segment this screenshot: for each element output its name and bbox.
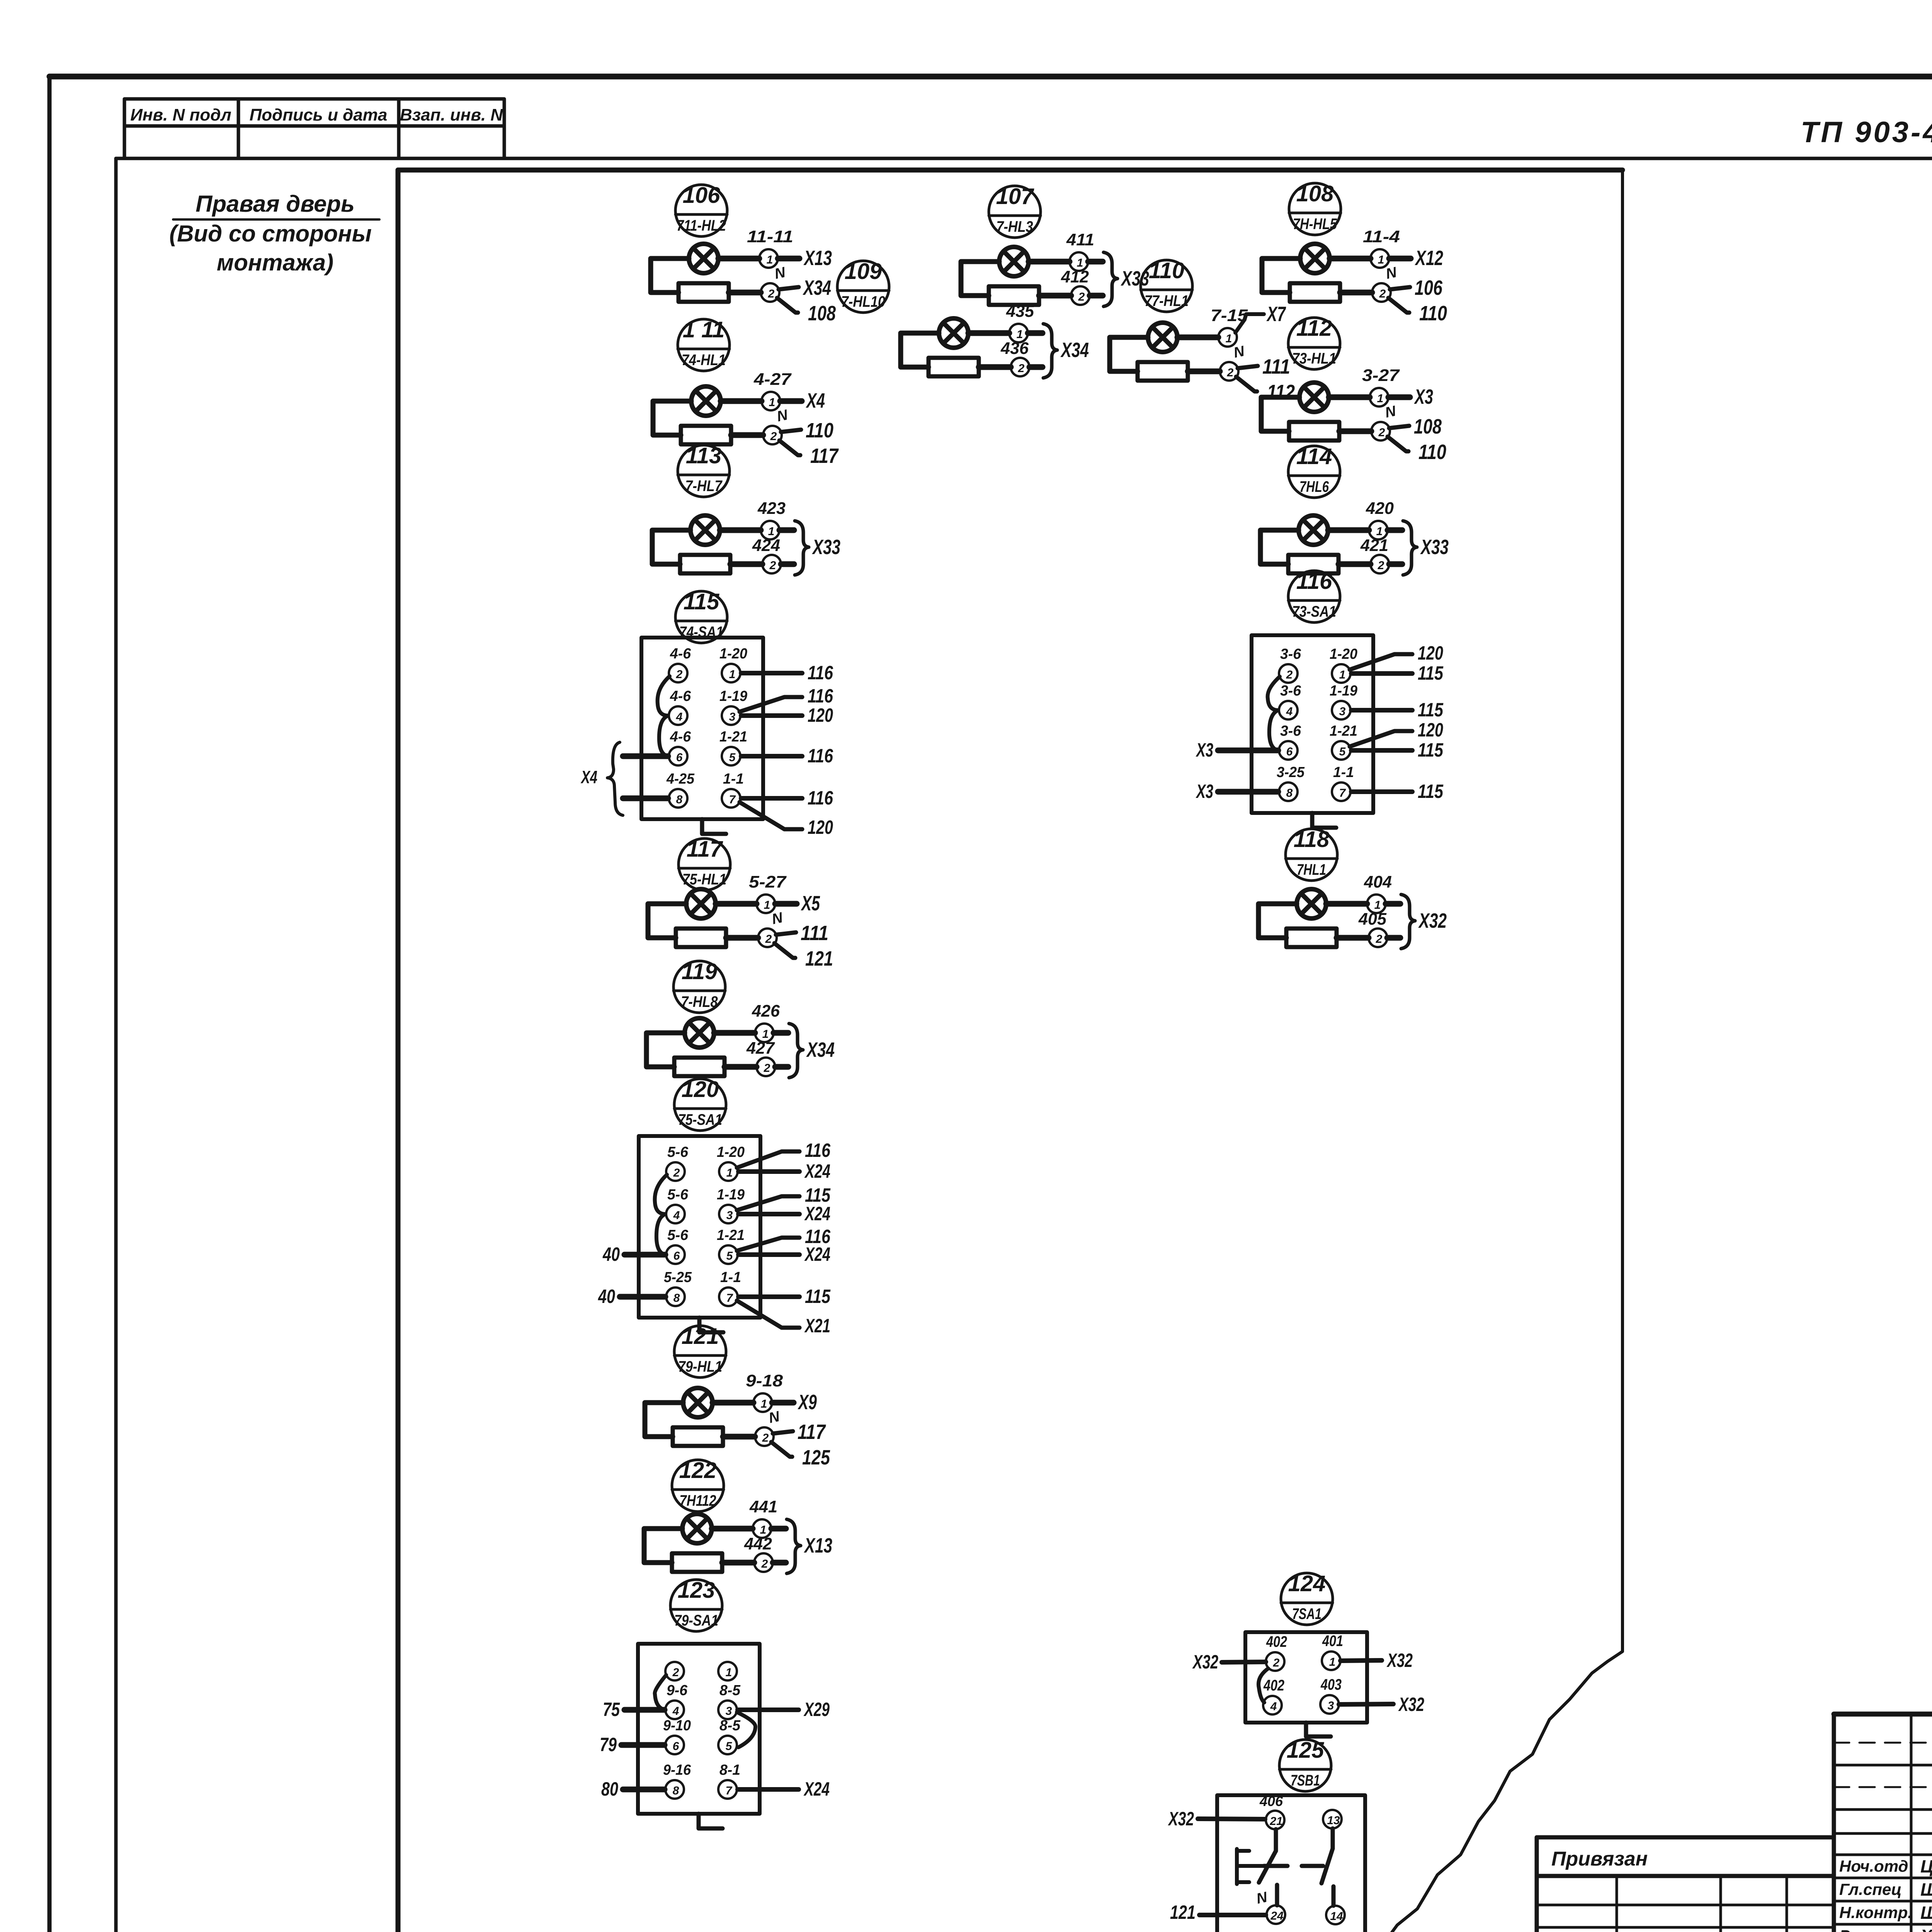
lamp HL7(113): terminal 1 — [761, 521, 779, 539]
switch SA1(123): label 8-5 — [719, 1682, 741, 1699]
svg-text:80: 80 — [601, 1778, 618, 1800]
svg-text:X32: X32 — [1418, 909, 1447, 932]
switch SA1(120): body — [639, 1136, 760, 1318]
lamp HL3(107): terminal 2 — [1071, 286, 1090, 305]
lamp H112(122): wire label 441 — [749, 1497, 777, 1516]
lamp H112(122): wire resistor to terminal 2 — [722, 1560, 754, 1566]
svg-text:73-SA1: 73-SA1 — [1292, 603, 1336, 620]
lamp HL6(114): wire resistor to terminal 2 — [1338, 561, 1371, 567]
svg-text:110: 110 — [1149, 258, 1184, 283]
switch SA1(123): label 9-16 — [663, 1762, 691, 1778]
svg-text:X4: X4 — [806, 389, 825, 412]
svg-text:2: 2 — [764, 1062, 770, 1075]
svg-text:1: 1 — [769, 396, 776, 409]
designator circle 119 (119/7-HL8) — [673, 959, 725, 1013]
switch SA1(115): bracket X4 wires to terminals 6,8 — [580, 742, 668, 815]
switch SA1(123): wire 75 to terminal 4 — [603, 1699, 665, 1720]
designator circle 107 (107/7-HL3) — [989, 184, 1041, 238]
svg-text:1: 1 — [1226, 332, 1232, 345]
svg-text:X24: X24 — [804, 1203, 830, 1225]
svg-text:412: 412 — [1061, 267, 1089, 286]
switch SA1(115): label 1-21 — [719, 729, 747, 745]
pushbutton 125: terminal 24 — [1267, 1905, 1285, 1924]
lamp HL1(121): wire to X9 — [772, 1391, 817, 1414]
lamp HL7(113): wire label 424 — [752, 536, 780, 555]
svg-text:5: 5 — [1339, 745, 1346, 758]
svg-text:115: 115 — [1418, 699, 1444, 721]
switch 124: mounting foot — [1306, 1723, 1331, 1736]
switch SA1(120): terminal 6 — [666, 1245, 685, 1264]
lamp HL2(106): wire lamp to terminal 1 — [718, 256, 759, 262]
lamp HL10(109): lamp symbol — [939, 318, 968, 348]
svg-text:74-HL1: 74-HL1 — [682, 352, 726, 369]
switch 124: label 402 — [1263, 1677, 1284, 1694]
lamp HL2(106): wire label 11-11 — [747, 227, 793, 246]
svg-text:116: 116 — [808, 745, 833, 767]
switch SA1(116): label 1-1 — [1333, 764, 1354, 781]
lamp H112(122): wire left rail — [644, 1529, 682, 1563]
switch SA1(120): label 5-6 — [667, 1144, 689, 1160]
svg-text:401: 401 — [1322, 1633, 1343, 1650]
lamp HL5(108): wire to 110 — [1388, 298, 1447, 325]
switch SA1(123): terminal 6 — [665, 1736, 684, 1754]
switch 124: terminal 4 — [1263, 1696, 1282, 1714]
svg-text:1-20: 1-20 — [719, 646, 747, 662]
svg-text:125: 125 — [1287, 1738, 1325, 1763]
svg-text:4-6: 4-6 — [670, 646, 691, 662]
lamp H112(122): terminal 2 — [754, 1553, 773, 1572]
lamp H112(122): wire lamp to terminal 1 — [712, 1526, 753, 1532]
switch SA1(115): terminal 3 — [722, 706, 740, 725]
lamp HL1(118): wire left rail — [1259, 904, 1297, 938]
svg-text:442: 442 — [744, 1534, 772, 1553]
lamp HL6(114): wire left rail — [1260, 530, 1299, 564]
svg-text:X13: X13 — [804, 1534, 832, 1557]
svg-text:7: 7 — [729, 793, 736, 806]
switch SA1(116): wire X3 to terminal 6 — [1196, 739, 1278, 761]
switch SA1(120): wire to 115 — [738, 1286, 831, 1307]
switch SA1(115): jumper wire 2-4-6 — [658, 676, 670, 756]
switch SA1(116): wire to 115 — [1351, 781, 1444, 802]
svg-text:121: 121 — [805, 947, 833, 970]
svg-text:4: 4 — [673, 1209, 680, 1222]
lamp HL10(109): wire label 436 — [1000, 339, 1029, 358]
switch SA1(120): label 5-6 — [667, 1227, 689, 1243]
svg-text:711-HL2: 711-HL2 — [677, 217, 726, 234]
switch SA1(116): label 3-6 — [1280, 723, 1301, 739]
lamp HL2(106): wire resistor to terminal 2 — [729, 290, 761, 296]
svg-text:77-HL1: 77-HL1 — [1145, 293, 1189, 310]
svg-text:7H-HL5: 7H-HL5 — [1293, 216, 1337, 233]
lamp HL7(113): wire resistor to terminal 2 — [730, 561, 762, 567]
designator circle 112 (112/73-HL1) — [1288, 316, 1340, 369]
switch SA1(115): label 4-6 — [670, 688, 691, 704]
lamp HL1(118): wire terminal 1 to bracket — [1386, 901, 1400, 907]
switch SA1(120): terminal 1 — [719, 1162, 738, 1181]
svg-text:5-25: 5-25 — [664, 1269, 692, 1286]
designator circle 108 (108/7H-HL5) — [1289, 181, 1341, 235]
svg-text:2: 2 — [1376, 933, 1383, 946]
lamp HL1(112): terminal 1 — [1370, 388, 1388, 406]
svg-text:112: 112 — [1267, 381, 1295, 404]
switch SA1(116): label 3-6 — [1280, 646, 1301, 662]
svg-text:120: 120 — [1418, 642, 1443, 664]
title block: row Ноч.отд Цапко — [1839, 1856, 1932, 1876]
switch SA1(115): wire to 116 — [741, 787, 833, 809]
lamp HL7(113): wire lamp to terminal 1 — [720, 527, 761, 533]
switch SA1(116): wire X3 to terminal 8 — [1196, 781, 1278, 802]
svg-text:11-11: 11-11 — [747, 227, 793, 246]
svg-text:2: 2 — [1286, 668, 1293, 681]
svg-text:9-10: 9-10 — [663, 1718, 691, 1734]
svg-text:8: 8 — [673, 1292, 680, 1304]
svg-text:1-20: 1-20 — [1330, 646, 1357, 662]
svg-text:3: 3 — [1339, 705, 1346, 718]
lamp HL1(118): terminal 2 — [1369, 929, 1387, 947]
svg-text:111: 111 — [1262, 355, 1290, 378]
lamp HL1(110): wire label 7-15 — [1211, 306, 1248, 325]
svg-text:Рук.гр.: Рук.гр. — [1839, 1927, 1895, 1932]
svg-text:7: 7 — [1339, 787, 1346, 799]
svg-text:2: 2 — [673, 1167, 680, 1179]
lamp HL7(113): wire left rail — [652, 530, 690, 564]
designator circle 124 (124/7SA1) — [1281, 1571, 1333, 1625]
svg-text:X33: X33 — [1420, 536, 1449, 559]
switch SA1(123): label 9-10 — [663, 1718, 691, 1734]
svg-text:1-21: 1-21 — [1330, 723, 1357, 739]
lamp HL1(121): resistor — [673, 1427, 723, 1446]
pushbutton 125: wire 121 to terminal 24 — [1170, 1901, 1266, 1923]
svg-text:6: 6 — [673, 1250, 680, 1262]
lamp HL1(110): wire resistor to terminal 2 — [1188, 369, 1220, 374]
designator circle 120 (120/75-SA1) — [674, 1077, 726, 1131]
switch SA1(120): wire 40 to terminal 6 — [602, 1243, 665, 1265]
switch SA1(123): wire 79 to terminal 6 — [600, 1734, 665, 1755]
switch 124: terminal 2 — [1266, 1652, 1284, 1671]
lamp HL1(117): wire left rail — [648, 904, 686, 938]
lamp HL7(113): wire terminal 2 to bracket — [781, 561, 794, 567]
lamp H112(122): lamp symbol — [682, 1514, 712, 1543]
lamp HL1(117): terminal 2 — [758, 929, 777, 947]
svg-text:108: 108 — [808, 302, 836, 325]
switch SA1(120): terminal 5 — [719, 1245, 738, 1264]
title block: row Н.контр. Шейнин — [1839, 1903, 1932, 1923]
switch 124: wire terminal 3 to X32 — [1339, 1694, 1424, 1715]
lamp HL2(106): node N label — [773, 264, 787, 282]
svg-text:116: 116 — [805, 1139, 831, 1161]
switch SA1(120): wire to 116 — [737, 1226, 831, 1251]
switch SA1(116): terminal 2 — [1279, 664, 1298, 683]
svg-text:1: 1 — [1377, 392, 1384, 405]
lamp HL1(118): bracket to X32 — [1401, 895, 1447, 949]
lamp HL1(111): wire to X4 — [780, 389, 825, 412]
svg-text:X3: X3 — [1196, 739, 1213, 761]
switch SA1(116): terminal 8 — [1279, 782, 1298, 801]
switch SA1(115): label 4-6 — [670, 646, 691, 662]
lamp HL1(118): resistor — [1286, 929, 1337, 947]
svg-text:1: 1 — [729, 668, 736, 681]
lamp HL5(108): wire label 11-4 — [1363, 227, 1400, 246]
svg-text:(Вид со стороны: (Вид со стороны — [169, 221, 372, 247]
table: Инв.N подл / Подпись и дата / Взам.инв.N — [124, 99, 504, 158]
lamp H112(122): wire terminal 1 to bracket — [771, 1526, 786, 1532]
svg-text:24: 24 — [1270, 1910, 1284, 1922]
svg-text:2: 2 — [762, 1432, 769, 1444]
pushbutton 125: label 406 — [1259, 1793, 1283, 1809]
lamp HL1(118): wire terminal 2 to bracket — [1387, 935, 1400, 941]
lamp HL1(117): wire resistor to terminal 2 — [726, 935, 758, 941]
lamp HL3(107): wire left rail — [961, 262, 999, 296]
lamp HL6(114): bracket to X33 — [1403, 521, 1449, 575]
svg-text:2: 2 — [672, 1666, 679, 1679]
svg-text:1 11: 1 11 — [683, 317, 725, 342]
svg-text:114: 114 — [1296, 444, 1332, 469]
svg-text:40: 40 — [602, 1243, 620, 1265]
lamp HL1(110): node N label — [1232, 343, 1247, 361]
switch SA1(116): mounting foot — [1312, 813, 1336, 828]
title block: row Рук.гр. Хаймовский — [1839, 1926, 1932, 1932]
switch SA1(123): jumper wire 2-4 — [655, 1675, 666, 1710]
svg-text:8: 8 — [676, 793, 683, 806]
switch SA1(123): terminal 4 — [665, 1701, 684, 1719]
svg-text:8: 8 — [1286, 787, 1293, 799]
svg-text:13: 13 — [1327, 1814, 1340, 1827]
lamp HL6(114): wire label 420 — [1366, 499, 1394, 518]
svg-text:423: 423 — [757, 499, 786, 518]
designator circle 109 (109/7-HL10) — [837, 259, 889, 313]
svg-text:124: 124 — [1288, 1571, 1326, 1596]
svg-text:120: 120 — [808, 704, 833, 726]
svg-text:1: 1 — [726, 1167, 733, 1179]
lamp HL5(108): wire to X12 — [1389, 247, 1443, 270]
svg-text:X7: X7 — [1266, 303, 1286, 326]
svg-text:120: 120 — [682, 1077, 719, 1102]
svg-text:4: 4 — [1270, 1700, 1277, 1713]
svg-text:7-HL3: 7-HL3 — [997, 218, 1033, 235]
lamp HL2(106): terminal 1 — [759, 249, 778, 268]
text Правая дверь (Вид со стороны монтажа) — [169, 191, 379, 276]
switch 124: terminal 1 — [1322, 1651, 1340, 1670]
svg-text:411: 411 — [1066, 230, 1094, 249]
svg-text:3-6: 3-6 — [1280, 723, 1301, 739]
svg-text:405: 405 — [1358, 910, 1386, 929]
lamp HL8(119): wire lamp to terminal 1 — [714, 1030, 755, 1036]
svg-text:110: 110 — [806, 419, 833, 442]
lamp HL1(111): wire left rail — [653, 401, 691, 435]
svg-text:110: 110 — [1419, 302, 1447, 325]
svg-text:2: 2 — [1378, 426, 1385, 439]
svg-text:1-1: 1-1 — [723, 771, 744, 787]
lamp HL1(117): wire to X5 — [775, 892, 820, 915]
svg-text:117: 117 — [810, 444, 839, 468]
lamp HL6(114): wire terminal 1 to bracket — [1388, 527, 1402, 533]
svg-text:X9: X9 — [798, 1391, 817, 1414]
svg-text:X24: X24 — [804, 1243, 830, 1265]
designator circle 121 (121/79-HL1) — [674, 1324, 726, 1378]
lamp HL1(118): wire lamp to terminal 1 — [1326, 901, 1367, 907]
switch SA1(123): mounting foot — [699, 1814, 723, 1828]
svg-text:3-27: 3-27 — [1362, 366, 1400, 385]
svg-text:1: 1 — [761, 1398, 767, 1410]
svg-text:115: 115 — [1418, 781, 1444, 802]
lamp HL5(108): resistor — [1290, 283, 1340, 302]
switch SA1(116): label 1-20 — [1330, 646, 1357, 662]
lamp HL6(114): terminal 1 — [1369, 521, 1388, 539]
svg-text:402: 402 — [1263, 1677, 1284, 1694]
lamp HL6(114): resistor — [1288, 555, 1338, 573]
switch SA1(123): label 9-6 — [667, 1682, 688, 1699]
lamp HL1(117): wire to 121 — [774, 943, 833, 970]
title block: row Гл.спец Шубов — [1839, 1879, 1932, 1900]
switch SA1(116): wire to 120 — [1350, 719, 1443, 747]
designator circle 111 (1 11/74-HL1) — [678, 317, 730, 371]
lamp HL1(112): wire left rail — [1261, 397, 1299, 431]
lamp HL5(108): wire to 106 — [1390, 276, 1443, 299]
svg-text:4-6: 4-6 — [670, 729, 691, 745]
svg-text:9-18: 9-18 — [746, 1371, 783, 1390]
switch SA1(120): wire to X24 — [738, 1160, 830, 1182]
svg-text:X32: X32 — [1386, 1650, 1413, 1671]
pushbutton 125: label N — [1255, 1889, 1269, 1907]
lamp HL1(110): resistor — [1138, 362, 1188, 381]
switch SA1(116): body — [1252, 635, 1373, 813]
lamp HL5(108): terminal 2 — [1372, 283, 1391, 302]
svg-text:73-HL1: 73-HL1 — [1292, 350, 1336, 367]
lamp HL10(109): wire label 435 — [1006, 302, 1034, 321]
svg-text:X5: X5 — [801, 892, 820, 915]
svg-text:X32: X32 — [1398, 1694, 1424, 1715]
lamp HL8(119): bracket to X34 — [789, 1024, 835, 1078]
switch SA1(115): wire to 116 — [740, 685, 833, 712]
svg-text:119: 119 — [682, 959, 717, 984]
switch SA1(116): terminal 6 — [1279, 741, 1298, 760]
svg-text:40: 40 — [598, 1286, 615, 1307]
svg-text:122: 122 — [679, 1458, 717, 1483]
svg-text:X24: X24 — [804, 1160, 830, 1182]
switch SA1(120): terminal 4 — [666, 1205, 685, 1223]
svg-text:3: 3 — [726, 1209, 733, 1222]
svg-text:420: 420 — [1366, 499, 1394, 518]
switch SA1(123): terminal 7 — [718, 1780, 737, 1799]
switch SA1(120): wire to 116 — [737, 1139, 831, 1168]
switch 124: wire X32 to terminal 2 — [1192, 1651, 1266, 1673]
svg-text:117: 117 — [687, 837, 723, 862]
svg-text:X3: X3 — [1414, 385, 1433, 408]
lamp HL1(110): wire to 111 — [1238, 355, 1290, 378]
svg-text:116: 116 — [808, 685, 833, 707]
switch SA1(116): wire to 115 — [1351, 739, 1444, 761]
svg-text:1-1: 1-1 — [720, 1269, 741, 1286]
svg-text:75: 75 — [603, 1699, 620, 1720]
lamp HL7(113): wire label 423 — [757, 499, 786, 518]
lamp HL1(111): wire label 4-27 — [753, 370, 792, 389]
svg-text:5: 5 — [726, 1250, 733, 1262]
switch SA1(115): wire to 120 — [740, 802, 833, 838]
lamp HL1(117): resistor — [676, 929, 726, 947]
switch SA1(120): mounting foot — [699, 1318, 723, 1332]
svg-text:79-HL1: 79-HL1 — [678, 1358, 722, 1375]
lamp HL7(113): wire terminal 1 to bracket — [779, 527, 794, 533]
lamp HL5(108): lamp symbol — [1300, 244, 1330, 273]
svg-text:Подпись и дата: Подпись и дата — [250, 105, 388, 124]
switch SA1(115): terminal 4 — [669, 706, 687, 725]
lamp HL10(109): wire lamp to terminal 1 — [968, 330, 1009, 336]
svg-text:8: 8 — [673, 1784, 679, 1797]
lamp HL1(111): terminal 1 — [762, 392, 780, 410]
svg-text:21: 21 — [1269, 1815, 1282, 1828]
switch SA1(123): terminal 3 — [718, 1701, 737, 1719]
pushbutton 125: terminal 13 — [1323, 1810, 1342, 1828]
switch 124: jumper wire 2-4 — [1259, 1668, 1268, 1702]
lamp HL1(112): wire lamp to terminal 1 — [1329, 395, 1370, 400]
svg-text:2: 2 — [1379, 287, 1386, 300]
lamp HL6(114): lamp symbol — [1299, 515, 1328, 545]
svg-text:427: 427 — [746, 1039, 775, 1058]
svg-text:3-6: 3-6 — [1280, 683, 1301, 699]
switch SA1(120): terminal 2 — [666, 1162, 685, 1181]
lamp HL1(117): wire lamp to terminal 1 — [716, 901, 757, 907]
switch SA1(115): label 1-1 — [723, 771, 744, 787]
lamp HL1(121): wire resistor to terminal 2 — [723, 1434, 755, 1440]
designator circle 115 (115/74-SA1) — [675, 589, 727, 643]
lamp HL1(121): wire to 125 — [771, 1442, 830, 1469]
switch SA1(123): wire 80 to terminal 8 — [601, 1778, 665, 1800]
lamp HL2(106): wire to X13 — [778, 247, 832, 270]
svg-text:2: 2 — [1018, 362, 1025, 375]
svg-text:118: 118 — [1294, 827, 1330, 852]
pushbutton 125: terminal 14 — [1326, 1906, 1345, 1924]
lamp HL1(110): terminal 2 — [1220, 362, 1238, 381]
switch SA1(115): label 4-6 — [670, 729, 691, 745]
lamp HL1(118): wire resistor to terminal 2 — [1337, 935, 1369, 941]
svg-text:X34: X34 — [806, 1038, 835, 1061]
svg-text:108: 108 — [1414, 415, 1442, 438]
lamp HL1(121): wire to 117 — [773, 1420, 826, 1444]
lamp HL7(113): resistor — [680, 555, 730, 573]
lamp HL8(119): wire left rail — [646, 1033, 685, 1067]
switch SA1(115): terminal 6 — [669, 747, 687, 765]
lamp HL1(111): resistor — [681, 426, 731, 444]
lamp HL7(113): lamp symbol — [690, 515, 720, 545]
svg-text:5: 5 — [726, 1740, 733, 1753]
lamp HL1(118): terminal 1 — [1367, 895, 1386, 913]
switch SA1(115): terminal 2 — [669, 664, 687, 682]
pushbutton 125: NO contact — [1302, 1828, 1333, 1906]
title block: left lower table — [1537, 1876, 1834, 1932]
lamp HL1(117): terminal 1 — [757, 895, 775, 913]
lamp HL5(108): wire left rail — [1262, 259, 1300, 293]
svg-text:403: 403 — [1320, 1676, 1342, 1693]
lamp HL8(119): resistor — [674, 1058, 724, 1076]
pushbutton 125: NC contact — [1259, 1829, 1287, 1905]
svg-text:5-6: 5-6 — [667, 1227, 689, 1243]
svg-text:7H112: 7H112 — [680, 1492, 716, 1509]
lamp HL1(121): wire lamp to terminal 1 — [713, 1400, 753, 1406]
switch SA1(116): wire to 115 — [1351, 699, 1444, 721]
svg-text:79: 79 — [600, 1734, 617, 1755]
svg-text:8-5: 8-5 — [719, 1682, 741, 1699]
switch SA1(120): terminal 3 — [719, 1205, 738, 1223]
svg-text:3: 3 — [729, 711, 736, 723]
svg-text:5-6: 5-6 — [667, 1144, 689, 1160]
svg-text:121: 121 — [682, 1324, 719, 1349]
lamp HL10(109): wire terminal 2 to bracket — [1029, 364, 1043, 370]
svg-text:107: 107 — [996, 184, 1035, 209]
svg-text:3: 3 — [1328, 1699, 1334, 1712]
switch SA1(120): wire 40 to terminal 8 — [598, 1286, 665, 1307]
lamp HL1(111): wire to 110 — [781, 419, 833, 442]
switch SA1(120): label 1-21 — [717, 1227, 745, 1243]
